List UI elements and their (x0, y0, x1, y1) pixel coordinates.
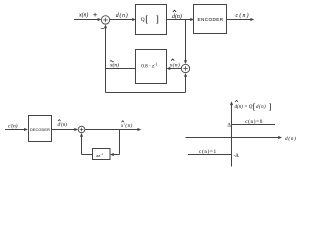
svg-text:-Δ: -Δ (234, 153, 240, 159)
wire delay output up to adder (80, 133, 83, 155)
wire branch down to adder (184, 20, 187, 65)
svg-text:d'(n): d'(n) (58, 123, 68, 128)
wire tap down (119, 130, 121, 155)
wire input x(n) (74, 18, 101, 21)
svg-text:Δ: Δ (227, 123, 231, 129)
svg-text:Q: Q (141, 17, 145, 23)
node label x(n) (78, 12, 88, 19)
wire predictor output x-tilde(n) (106, 68, 136, 70)
node label d-hat'(n) (58, 120, 68, 128)
predictor block 0.8z^-1 (136, 50, 167, 84)
svg-text:]: ] (269, 103, 272, 112)
svg-text:]: ] (156, 14, 159, 24)
value label 0.8 z^-1 (141, 63, 157, 70)
value label ENCODER (198, 17, 224, 22)
quantizer lower step (188, 154, 232, 156)
delta mark negative (234, 153, 240, 159)
delay block az^-1 (93, 149, 111, 160)
label c(n)=0 (245, 118, 263, 125)
node label c(n) (236, 12, 250, 19)
wire adder to predictor (167, 67, 182, 70)
svg-text:ENCODER: ENCODER (198, 17, 224, 22)
svg-text:DECODER: DECODER (30, 128, 50, 132)
svg-text:d(n): d(n) (116, 12, 129, 19)
wire delay output left (82, 154, 93, 156)
svg-text:d(n): d(n) (172, 13, 182, 20)
encoder block (194, 5, 227, 34)
wire c(n) output (227, 18, 255, 21)
adder S3 (78, 126, 85, 133)
y axis of quantizer graph (230, 101, 233, 166)
value label az^-1 (96, 152, 103, 158)
quantizer upper step (232, 124, 276, 126)
wire feedback bottom (106, 92, 186, 94)
node label x-hat(n) (169, 59, 180, 68)
svg-text:c(n): c(n) (236, 12, 250, 19)
axis title d-hat(n)=Q[d(n)] (235, 100, 272, 111)
svg-text:d(n) = Q: d(n) = Q (235, 105, 253, 110)
svg-text:c(n)=0: c(n)=0 (245, 118, 263, 125)
value label DECODER (30, 128, 50, 132)
node label c'(n) (8, 123, 18, 130)
svg-text:d(n): d(n) (285, 135, 297, 142)
svg-text:x'(n): x'(n) (120, 124, 133, 129)
summing junction S1 (101, 16, 109, 24)
svg-text:c'(n): c'(n) (8, 123, 18, 130)
axis label d(n) (285, 135, 297, 142)
wire decoder to adder d-hat'(n) (52, 128, 79, 131)
wire feedback left vertical (104, 24, 107, 92)
node label x-hat'(n) (120, 121, 133, 129)
svg-text:0.8 · z-1: 0.8 · z-1 (141, 63, 157, 70)
wire output x-hat'(n) (85, 128, 141, 131)
x axis of quantizer graph (186, 136, 283, 139)
svg-text:c(n)=1: c(n)=1 (199, 148, 217, 155)
minus sign at summer (101, 27, 104, 29)
wire d-hat(n) (167, 18, 195, 21)
svg-text:d(n): d(n) (256, 105, 266, 110)
svg-text:x(n): x(n) (78, 12, 88, 19)
node label d-hat(n) (172, 10, 182, 20)
wire input c'(n) (5, 128, 28, 131)
decoder block (29, 116, 52, 142)
wire tap left into delay block (110, 153, 120, 156)
svg-text:[: [ (145, 14, 148, 24)
svg-text:x(n): x(n) (169, 61, 180, 68)
wire d(n) (110, 18, 136, 21)
plus sign at summer input (93, 13, 97, 17)
node label x-tilde(n) (109, 61, 119, 69)
wire feedback right riser (184, 73, 187, 93)
delta mark positive (227, 123, 231, 129)
node label d(n) (116, 12, 129, 19)
quantizer block Q (136, 5, 167, 35)
svg-text:az-1: az-1 (96, 152, 103, 158)
svg-text:x(n): x(n) (109, 62, 119, 69)
value label Q[ ] (141, 14, 159, 24)
adder S2 (181, 64, 189, 72)
label c(n)=1 (199, 148, 217, 155)
